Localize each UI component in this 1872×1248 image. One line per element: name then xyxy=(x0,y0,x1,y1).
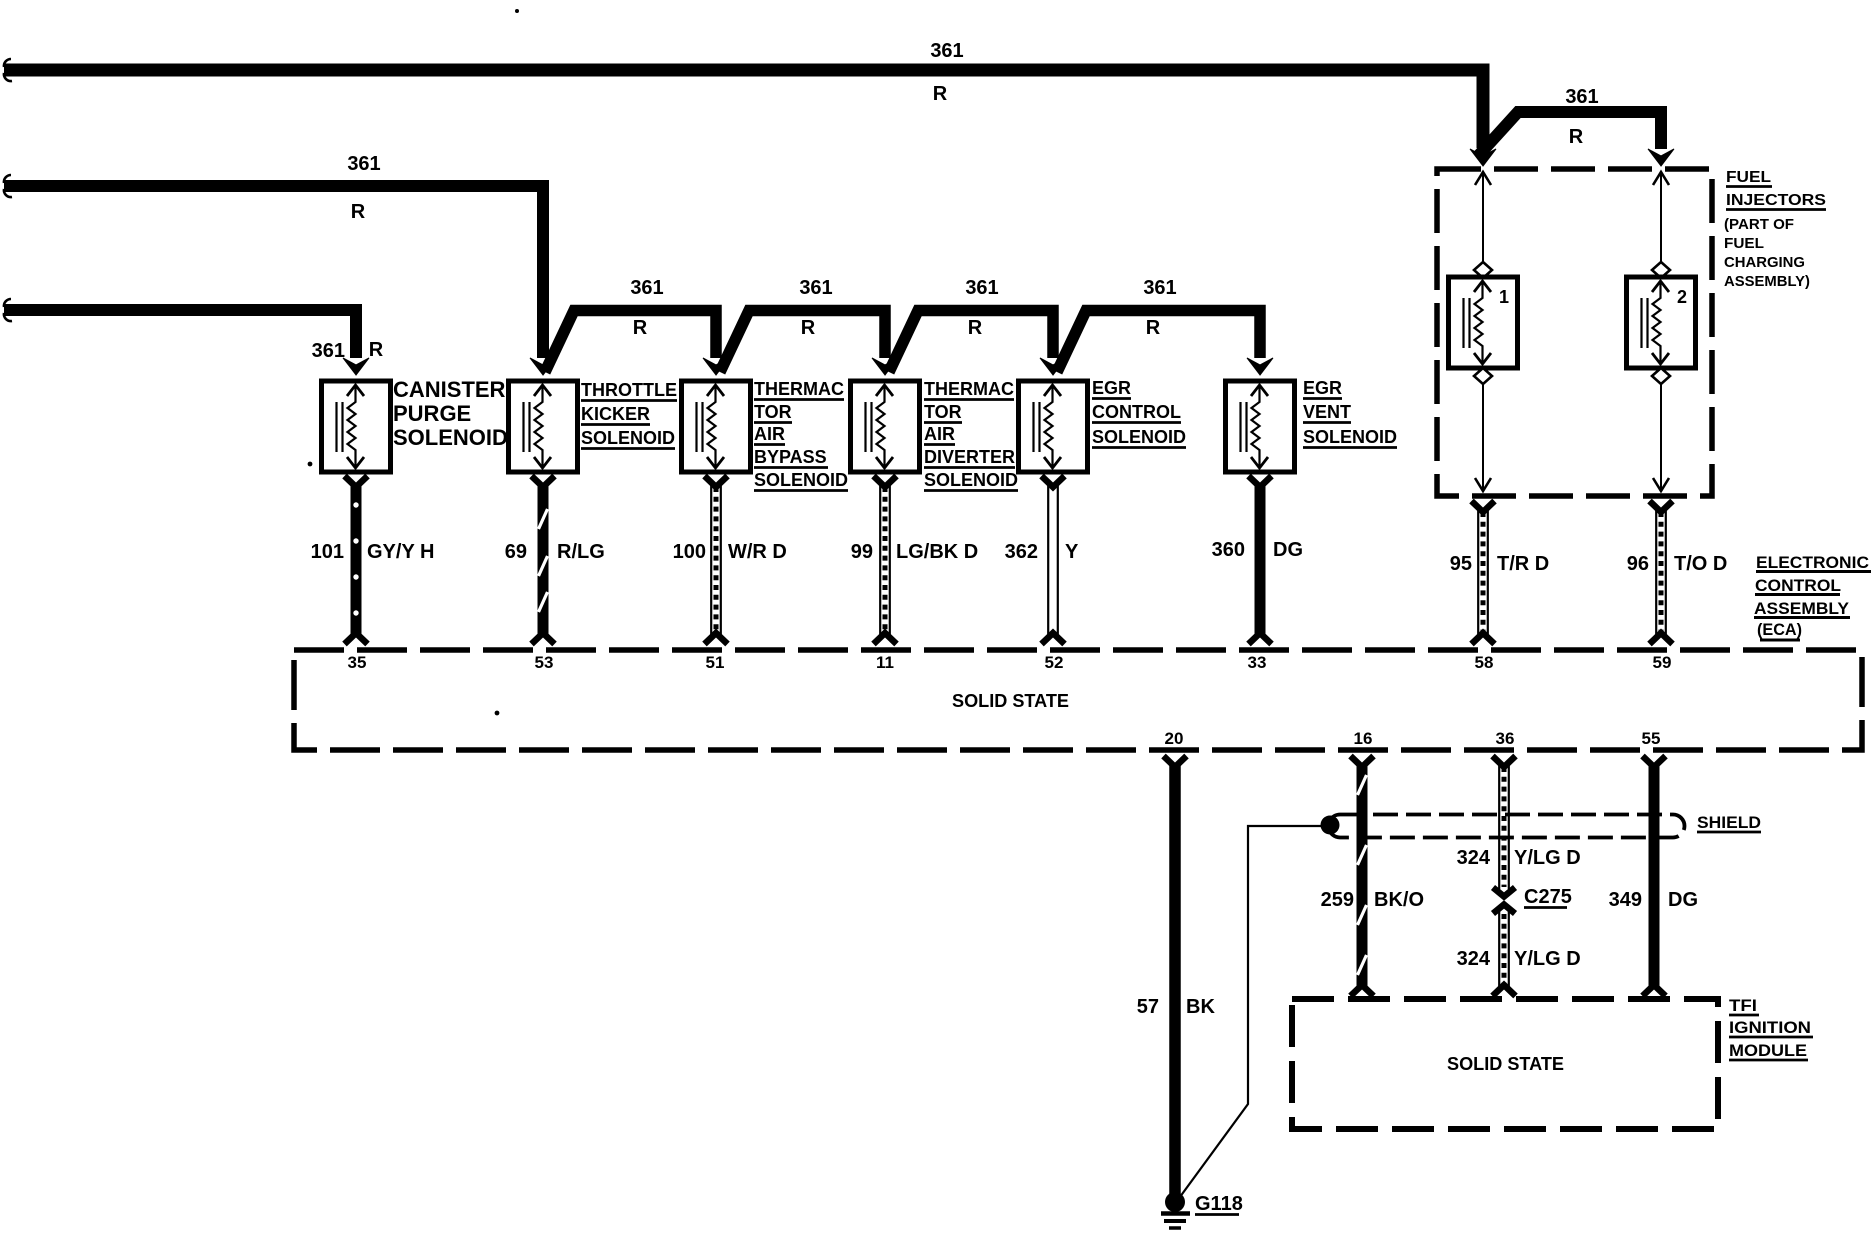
label EGR VENT SOLENOID xyxy=(1303,378,1397,448)
speck (scan artifact, ECA) xyxy=(495,711,500,716)
label G118 xyxy=(1195,1193,1243,1215)
svg-text:CHARGING: CHARGING xyxy=(1724,254,1805,271)
label 96 T/O D xyxy=(1627,553,1728,575)
arrow into throttle kicker solenoid xyxy=(530,358,556,375)
wire 349 DG xyxy=(1643,756,1666,996)
svg-text:(PART OF: (PART OF xyxy=(1724,216,1794,233)
label 57 BK xyxy=(1137,996,1216,1018)
svg-text:324: 324 xyxy=(1457,948,1491,970)
svg-text:T/O D: T/O D xyxy=(1674,553,1727,575)
label THERMACTOR AIR DIVERTER SOLENOID xyxy=(924,379,1018,491)
wire 100 W/R D xyxy=(705,476,728,644)
label 324 Y/LG D (upper) xyxy=(1457,847,1581,869)
svg-text:DG: DG xyxy=(1273,539,1303,561)
svg-text:TOR: TOR xyxy=(754,402,792,422)
svg-text:EGR: EGR xyxy=(1303,378,1342,398)
wire 361 R jumper throttle kicker to thermactor air bypass xyxy=(545,311,716,373)
svg-text:R: R xyxy=(633,317,648,339)
svg-text:VENT: VENT xyxy=(1303,402,1351,422)
label 100 W/R D xyxy=(673,541,787,563)
svg-text:35: 35 xyxy=(348,653,367,672)
svg-text:57: 57 xyxy=(1137,996,1159,1018)
svg-text:FUEL: FUEL xyxy=(1724,235,1764,252)
shield xyxy=(1321,815,1685,838)
svg-text:PURGE: PURGE xyxy=(393,401,471,426)
canister purge solenoid xyxy=(322,381,391,472)
svg-text:DIVERTER: DIVERTER xyxy=(924,447,1015,467)
svg-text:(ECA): (ECA) xyxy=(1757,620,1802,639)
wire 101 GY/Y H xyxy=(345,476,368,644)
svg-text:THERMAC: THERMAC xyxy=(924,379,1014,399)
svg-text:16: 16 xyxy=(1354,729,1373,748)
svg-text:R: R xyxy=(369,339,384,361)
arrow into canister purge solenoid xyxy=(343,358,369,375)
svg-text:TOR: TOR xyxy=(924,402,962,422)
svg-text:R/LG: R/LG xyxy=(557,541,605,563)
svg-text:361: 361 xyxy=(630,277,663,299)
label 361 R (jumper to thermactor air diverter) xyxy=(799,277,832,339)
svg-text:324: 324 xyxy=(1457,847,1491,869)
svg-text:R: R xyxy=(1146,317,1161,339)
svg-text:362: 362 xyxy=(1005,541,1038,563)
arrow into thermactor air diverter solenoid xyxy=(872,358,898,375)
svg-text:100: 100 xyxy=(673,541,706,563)
svg-text:361: 361 xyxy=(930,40,963,62)
svg-text:LG/BK D: LG/BK D xyxy=(896,541,978,563)
svg-text:R: R xyxy=(801,317,816,339)
svg-text:SOLENOID: SOLENOID xyxy=(1092,427,1186,447)
svg-text:101: 101 xyxy=(311,541,344,563)
speck (scan artifact, top) xyxy=(515,9,519,13)
svg-text:ASSEMBLY): ASSEMBLY) xyxy=(1724,273,1810,290)
label 259 BK/O xyxy=(1321,889,1424,911)
svg-text:G118: G118 xyxy=(1195,1193,1243,1215)
label 349 DG xyxy=(1609,889,1698,911)
svg-text:BYPASS: BYPASS xyxy=(754,447,827,467)
label SHIELD xyxy=(1697,813,1761,832)
svg-text:DG: DG xyxy=(1668,889,1698,911)
svg-text:2: 2 xyxy=(1677,287,1687,307)
svg-text:SOLID STATE: SOLID STATE xyxy=(1447,1054,1564,1074)
svg-text:361: 361 xyxy=(1143,277,1176,299)
label 361 R (injector jumper) xyxy=(1565,86,1598,148)
svg-text:58: 58 xyxy=(1475,653,1494,672)
arrow into fuel injectors box (left drop) xyxy=(1470,149,1496,166)
wire 361 R feed 2 xyxy=(4,175,543,358)
svg-text:361: 361 xyxy=(1565,86,1598,108)
svg-text:W/R D: W/R D xyxy=(728,541,787,563)
svg-text:ASSEMBLY: ASSEMBLY xyxy=(1754,599,1850,618)
label FUEL INJECTORS (PART OF FUEL CHARGING ASSEMBLY) xyxy=(1724,169,1826,290)
svg-text:SOLID STATE: SOLID STATE xyxy=(952,691,1069,711)
svg-text:55: 55 xyxy=(1642,729,1661,748)
svg-text:259: 259 xyxy=(1321,889,1354,911)
svg-text:59: 59 xyxy=(1653,653,1672,672)
EGR control solenoid xyxy=(1019,381,1088,472)
svg-text:33: 33 xyxy=(1248,653,1267,672)
svg-text:IGNITION: IGNITION xyxy=(1729,1018,1811,1037)
svg-text:69: 69 xyxy=(505,541,527,563)
wire 69 R/LG xyxy=(532,476,555,644)
svg-text:FUEL: FUEL xyxy=(1726,169,1771,186)
svg-text:R: R xyxy=(933,83,948,105)
label 360 DG xyxy=(1212,539,1303,561)
wire 362 Y xyxy=(1042,476,1065,644)
label THERMACTOR AIR BYPASS SOLENOID xyxy=(754,379,848,491)
svg-text:SOLENOID: SOLENOID xyxy=(581,428,675,448)
speck (scan artifact, left) xyxy=(308,462,313,467)
svg-text:53: 53 xyxy=(535,653,554,672)
svg-text:THROTTLE: THROTTLE xyxy=(581,380,677,400)
svg-text:36: 36 xyxy=(1496,729,1515,748)
svg-text:SHIELD: SHIELD xyxy=(1697,813,1761,832)
connector C275 xyxy=(1493,888,1515,914)
wire 99 LG/BK D xyxy=(874,476,897,644)
arrow into thermactor air bypass solenoid xyxy=(703,358,729,375)
svg-text:INJECTORS: INJECTORS xyxy=(1726,192,1826,209)
svg-text:51: 51 xyxy=(706,653,725,672)
wire 361 R jumper thermactor air bypass to thermactor air diverter xyxy=(720,311,885,373)
TFI ignition module dashed box xyxy=(1292,999,1718,1129)
arrow into EGR control solenoid xyxy=(1040,358,1066,375)
svg-text:T/R D: T/R D xyxy=(1497,553,1549,575)
svg-text:99: 99 xyxy=(851,541,873,563)
shield ground wire xyxy=(1177,826,1322,1201)
svg-text:20: 20 xyxy=(1165,729,1184,748)
svg-text:CONTROL: CONTROL xyxy=(1092,402,1181,422)
label 101 GY/Y H xyxy=(311,541,435,563)
label ELECTRONIC CONTROL ASSEMBLY (ECA) xyxy=(1754,553,1871,640)
label 362 Y xyxy=(1005,541,1079,563)
svg-text:TFI: TFI xyxy=(1729,996,1757,1015)
label TFI IGNITION MODULE xyxy=(1729,996,1813,1060)
svg-text:R: R xyxy=(968,317,983,339)
throttle kicker solenoid xyxy=(509,381,578,472)
svg-text:BK: BK xyxy=(1186,996,1215,1018)
svg-text:THERMAC: THERMAC xyxy=(754,379,844,399)
wire 361 R jumper thermactor air diverter to EGR control xyxy=(889,311,1053,373)
svg-text:Y/LG D: Y/LG D xyxy=(1514,847,1581,869)
wire 361 R feed 3 xyxy=(4,299,356,358)
svg-text:361: 361 xyxy=(799,277,832,299)
label 361 R (feed 1) xyxy=(930,40,963,105)
svg-text:SOLENOID: SOLENOID xyxy=(754,470,848,490)
svg-text:52: 52 xyxy=(1045,653,1064,672)
svg-text:11: 11 xyxy=(876,653,894,672)
svg-text:CANISTER: CANISTER xyxy=(393,377,506,402)
svg-text:360: 360 xyxy=(1212,539,1245,561)
svg-text:95: 95 xyxy=(1450,553,1472,575)
wire 360 DG xyxy=(1249,476,1272,644)
label CANISTER PURGE SOLENOID xyxy=(393,377,508,450)
svg-text:GY/Y H: GY/Y H xyxy=(367,541,434,563)
svg-text:KICKER: KICKER xyxy=(581,404,650,424)
svg-text:349: 349 xyxy=(1609,889,1642,911)
svg-text:SOLENOID: SOLENOID xyxy=(1303,427,1397,447)
label 69 R/LG xyxy=(505,541,605,563)
svg-text:96: 96 xyxy=(1627,553,1649,575)
label C275 xyxy=(1524,886,1572,908)
svg-text:SOLENOID: SOLENOID xyxy=(924,470,1018,490)
svg-text:361: 361 xyxy=(965,277,998,299)
ground G118 xyxy=(1161,1192,1190,1228)
svg-text:AIR: AIR xyxy=(754,424,785,444)
electronic control assembly (ECA) dashed box xyxy=(294,650,1862,750)
svg-text:361: 361 xyxy=(347,153,380,175)
wire 324 Y/LG D (lower) xyxy=(1493,911,1516,996)
label 361 R (feed 3) xyxy=(312,339,384,362)
wire 361 R jumper EGR control to EGR vent xyxy=(1057,311,1260,373)
wire 361 R jumper to injector 2 xyxy=(1478,112,1661,156)
thermactor air bypass solenoid xyxy=(682,381,751,472)
label 95 T/R D xyxy=(1450,553,1549,575)
wire 57 BK xyxy=(1164,756,1187,1196)
svg-text:AIR: AIR xyxy=(924,424,955,444)
wire 95 T/R D xyxy=(1472,501,1495,644)
label EGR CONTROL SOLENOID xyxy=(1092,378,1186,448)
label 361 R (jumper to EGR control) xyxy=(965,277,998,339)
fuel injectors dashed box xyxy=(1437,169,1712,496)
arrow into EGR vent solenoid xyxy=(1247,358,1273,375)
label 361 R (jumper to thermactor air bypass) xyxy=(630,277,663,339)
label THROTTLE KICKER SOLENOID xyxy=(581,380,677,449)
label 361 R (jumper to EGR vent) xyxy=(1143,277,1176,339)
svg-text:R: R xyxy=(351,201,366,223)
label 99 LG/BK D xyxy=(851,541,978,563)
svg-text:MODULE: MODULE xyxy=(1729,1041,1807,1060)
wire 361 R feed 1 (top) xyxy=(4,59,1483,148)
svg-text:R: R xyxy=(1569,126,1584,148)
EGR vent solenoid xyxy=(1226,381,1295,472)
svg-text:EGR: EGR xyxy=(1092,378,1131,398)
svg-text:1: 1 xyxy=(1499,287,1509,307)
svg-text:C275: C275 xyxy=(1524,886,1572,908)
svg-text:Y/LG D: Y/LG D xyxy=(1514,948,1581,970)
fuel injector 1 xyxy=(1449,171,1518,492)
svg-text:SOLENOID: SOLENOID xyxy=(393,425,508,450)
label 361 R (feed 2) xyxy=(347,153,380,223)
svg-text:CONTROL: CONTROL xyxy=(1755,576,1841,595)
wire 96 T/O D xyxy=(1650,501,1673,644)
svg-text:361: 361 xyxy=(312,340,345,362)
fuel injector 2 xyxy=(1627,171,1696,492)
wire 259 BK/O xyxy=(1351,756,1374,996)
svg-text:Y: Y xyxy=(1065,541,1079,563)
wire 324 Y/LG D (upper) xyxy=(1493,756,1516,889)
thermactor air diverter solenoid xyxy=(851,381,920,472)
arrow into fuel injectors box (right drop) xyxy=(1648,149,1674,166)
svg-text:ELECTRONIC: ELECTRONIC xyxy=(1756,553,1869,572)
label 324 Y/LG D (lower) xyxy=(1457,948,1581,970)
svg-text:BK/O: BK/O xyxy=(1374,889,1424,911)
